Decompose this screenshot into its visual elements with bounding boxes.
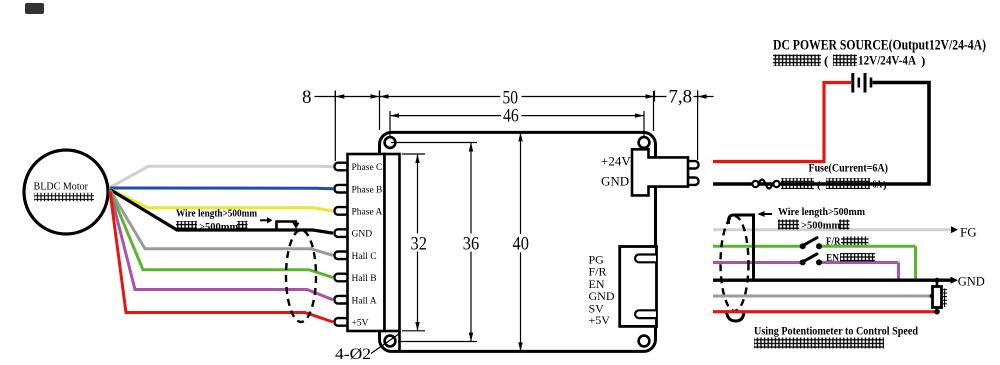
svg-text:>500mm: >500mm bbox=[801, 221, 840, 232]
svg-text:EN: EN bbox=[826, 252, 839, 264]
svg-text:Phase B: Phase B bbox=[352, 185, 383, 195]
svg-text:+5V: +5V bbox=[352, 319, 369, 329]
svg-text:Phase A: Phase A bbox=[352, 208, 383, 218]
svg-text:Phase C: Phase C bbox=[352, 163, 383, 173]
svg-text:+5V: +5V bbox=[589, 313, 611, 327]
svg-text:(: ( bbox=[824, 53, 828, 68]
svg-text:): ) bbox=[883, 179, 887, 191]
svg-text:GND: GND bbox=[352, 230, 373, 240]
svg-text:Hall B: Hall B bbox=[352, 274, 377, 284]
svg-text:Wire length>500mm: Wire length>500mm bbox=[778, 206, 865, 218]
svg-text:+24V: +24V bbox=[601, 153, 631, 168]
svg-text:Wire length>500mm: Wire length>500mm bbox=[176, 209, 257, 220]
svg-text:GND: GND bbox=[601, 173, 629, 188]
svg-text:BLDC Motor: BLDC Motor bbox=[34, 181, 89, 193]
svg-text:DC POWER SOURCE(Output12V/24-4: DC POWER SOURCE(Output12V/24-4A) bbox=[773, 38, 986, 54]
svg-text:): ) bbox=[921, 53, 925, 68]
svg-text:GND: GND bbox=[958, 274, 985, 288]
svg-text:12V/24V-4A: 12V/24V-4A bbox=[858, 54, 916, 68]
svg-text:Hall A: Hall A bbox=[352, 296, 377, 306]
svg-text:Using Potentiometer to Control: Using Potentiometer to Control Speed bbox=[754, 324, 918, 338]
svg-text:=6A: =6A bbox=[868, 179, 882, 191]
svg-text:>500mm: >500mm bbox=[199, 222, 238, 233]
svg-text:36: 36 bbox=[463, 234, 479, 255]
svg-text:8: 8 bbox=[302, 87, 312, 108]
svg-text:Hall C: Hall C bbox=[352, 252, 377, 262]
svg-text:F/R: F/R bbox=[826, 236, 841, 248]
svg-text:FG: FG bbox=[960, 224, 977, 239]
svg-text:(: ( bbox=[817, 179, 821, 191]
svg-text:7,8: 7,8 bbox=[669, 87, 693, 108]
svg-text:Fuse(Current=6A): Fuse(Current=6A) bbox=[809, 163, 889, 175]
svg-text:32: 32 bbox=[411, 234, 427, 255]
svg-text:4-Ø2: 4-Ø2 bbox=[335, 346, 371, 363]
svg-text:40: 40 bbox=[513, 234, 529, 255]
svg-text:46: 46 bbox=[503, 106, 519, 127]
